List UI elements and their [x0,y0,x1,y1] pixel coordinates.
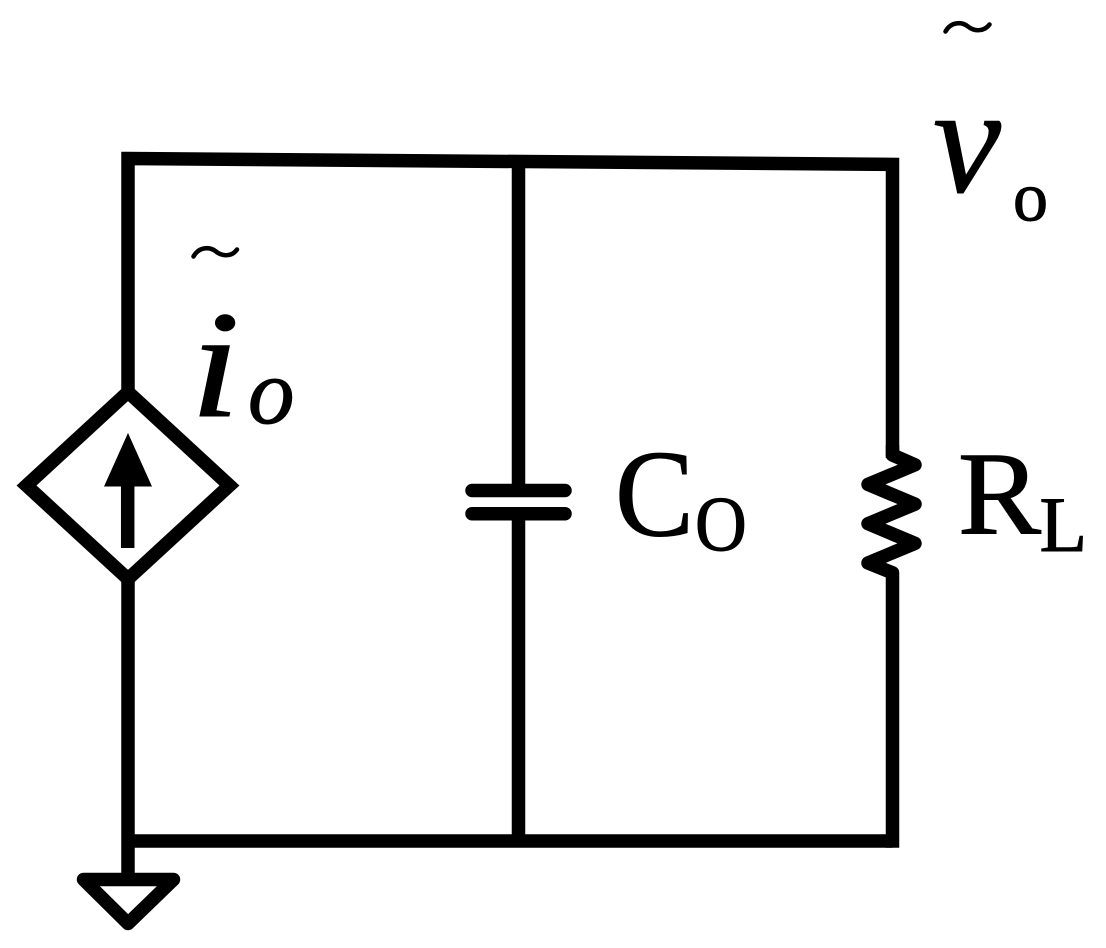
label tilde over v [946,23,990,31]
current source arrow shaft [121,481,135,548]
wire: capacitor bottom vertical [512,514,526,841]
resistor R_L zigzag and lower wire [868,445,915,848]
svg-text:i: i [190,281,240,450]
wire: bottom horizontal [128,834,893,848]
wire: capacitor top vertical [512,162,526,491]
svg-text:C: C [615,426,694,563]
svg-text:R: R [958,428,1042,560]
svg-text:o: o [248,341,295,444]
svg-text:o: o [1013,160,1048,237]
wire: top loop (left vertical, top horizontal, right vertical) [128,159,893,459]
wire: left lower vertical (source to ground) [121,580,135,890]
current source U1 diamond [27,392,230,579]
current source arrow head [104,433,152,487]
ground [84,880,174,924]
svg-text:L: L [1040,481,1088,568]
svg-text:v: v [933,57,1001,226]
label tilde over i [194,248,238,256]
capacitor C_O bottom plate [472,507,565,521]
svg-text:O: O [695,481,747,567]
capacitor C_O top plate [472,484,565,498]
